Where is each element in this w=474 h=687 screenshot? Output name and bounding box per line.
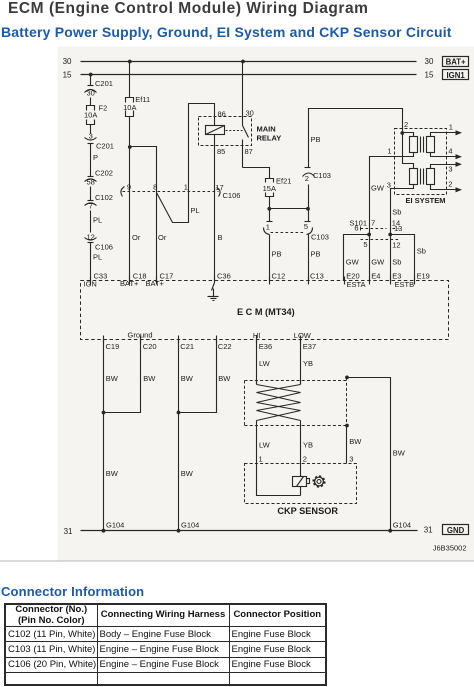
transformer secondary 1: [427, 137, 435, 153]
twisted pair wires: [257, 381, 301, 421]
svg-text:ESTB: ESTB: [395, 280, 415, 289]
wire BW C19 to G104: [104, 340, 119, 531]
svg-text:9: 9: [127, 183, 131, 192]
svg-text:YB: YB: [303, 440, 313, 449]
wire F2 to C201 pin 3: [90, 125, 92, 134]
svg-text:PB: PB: [272, 250, 282, 259]
svg-text:13: 13: [394, 224, 402, 233]
svg-text:15: 15: [425, 70, 434, 79]
svg-text:C12: C12: [272, 272, 286, 281]
svg-text:C36: C36: [217, 272, 231, 281]
wire ground bus 31: [64, 526, 434, 536]
svg-text:C22: C22: [218, 342, 232, 351]
pin C33 of ECM: [84, 272, 108, 289]
wire BW shield to G104: [347, 378, 406, 531]
svg-text:PB: PB: [311, 250, 321, 259]
wire PL from C106 pin 1 to pin 8: [157, 192, 200, 223]
wire C201 to fuse F2: [90, 98, 92, 106]
wire BW C20: [104, 340, 157, 413]
connector C103 pins 1 and 5: [264, 209, 329, 242]
svg-text:BW: BW: [393, 448, 406, 457]
wire Or C106 pin 8 to ECM C17: [157, 192, 167, 281]
svg-text:BW: BW: [181, 469, 194, 478]
svg-text:GW: GW: [371, 184, 385, 193]
pin E37 of ECM (LOW): [294, 331, 316, 351]
svg-text:C201: C201: [96, 142, 114, 151]
svg-text:8: 8: [153, 183, 157, 192]
svg-text:CKP SENSOR: CKP SENSOR: [277, 506, 338, 516]
svg-text:Sb: Sb: [417, 246, 426, 255]
wire PL to ECM C33: [91, 243, 103, 281]
CKP reluctor gear: [313, 476, 326, 488]
svg-text:E19: E19: [417, 272, 430, 281]
wire P: [91, 144, 99, 177]
svg-text:86: 86: [218, 110, 226, 119]
svg-text:IGN1: IGN1: [446, 71, 465, 80]
connector C202 pin 58: [85, 169, 113, 187]
svg-text:J6B35002: J6B35002: [433, 543, 467, 552]
ignition coil module EI SYSTEM: [395, 129, 447, 206]
svg-text:GND: GND: [447, 526, 465, 535]
svg-text:BW: BW: [218, 374, 231, 383]
svg-text:10A: 10A: [84, 111, 97, 120]
junction shield bottom: [345, 424, 349, 428]
wire PB to EI system via C103 pin 2: [303, 109, 403, 209]
svg-text:C106: C106: [223, 191, 241, 200]
node G104 left: [102, 521, 125, 533]
svg-text:E36: E36: [259, 342, 272, 351]
svg-text:C102: C102: [95, 193, 113, 202]
svg-text:10A: 10A: [123, 103, 136, 112]
wire bus 15 (ignition feed): [63, 70, 434, 79]
svg-text:PL: PL: [93, 253, 102, 262]
EI output 4: [431, 146, 463, 159]
svg-text:30: 30: [246, 109, 254, 118]
junction S101 GW: [367, 233, 371, 237]
pin C22 of ECM: [217, 336, 232, 352]
junction Ef11 branch: [128, 145, 132, 149]
svg-text:C202: C202: [95, 169, 113, 178]
junction PB right: [306, 207, 310, 211]
EI output 1: [431, 122, 463, 136]
connector C102 pin 7: [85, 193, 113, 211]
wire YB to CKP pin 2: [301, 421, 314, 464]
wire bus 30 (battery feed): [63, 57, 434, 66]
svg-text:PB: PB: [311, 135, 321, 144]
wire B C106 pin 17 to ECM C36: [215, 135, 223, 281]
wire Sb S101 pin 12 to ECM E3: [391, 235, 402, 281]
connector C201 pin 30: [85, 79, 113, 98]
svg-text:6: 6: [354, 224, 358, 233]
wire BW C21 to G104: [179, 340, 194, 531]
svg-text:BW: BW: [181, 374, 194, 383]
svg-text:G104: G104: [393, 521, 411, 530]
svg-text:RELAY: RELAY: [257, 133, 282, 142]
svg-text:31: 31: [64, 527, 73, 536]
svg-text:LW: LW: [259, 440, 271, 449]
svg-text:5: 5: [304, 222, 308, 231]
fuse Ef21 15A: [263, 176, 292, 196]
junction S101 Sb: [388, 233, 392, 237]
svg-text:G104: G104: [106, 521, 124, 530]
transformer core 2: [421, 169, 424, 185]
svg-text:LW: LW: [259, 359, 271, 368]
node EI pin 2: [400, 120, 408, 135]
svg-text:Ef21: Ef21: [276, 176, 291, 185]
svg-text:C20: C20: [143, 342, 157, 351]
wire Ef21 to junction: [269, 197, 271, 209]
wire YB from ECM E37: [301, 340, 314, 385]
svg-text:BW: BW: [106, 469, 119, 478]
svg-text:BAT+: BAT+: [120, 279, 139, 288]
svg-text:ESTA: ESTA: [347, 280, 366, 289]
svg-text:3: 3: [89, 131, 93, 140]
transformer core 1: [421, 137, 424, 153]
svg-text:C19: C19: [106, 342, 120, 351]
pin C17 of ECM: [146, 272, 174, 288]
drawing number J6B35002: [433, 543, 467, 552]
pin C36 of ECM with ground: [208, 272, 231, 301]
svg-text:15: 15: [63, 70, 72, 79]
svg-text:PL: PL: [191, 206, 200, 215]
svg-text:2: 2: [303, 454, 307, 463]
svg-text:1: 1: [266, 223, 270, 232]
transformer primary 2: [410, 169, 418, 185]
pin E19 of ECM: [415, 272, 430, 285]
svg-text:1: 1: [184, 183, 188, 192]
svg-text:MAIN: MAIN: [257, 124, 276, 133]
svg-text:PL: PL: [93, 215, 102, 224]
wire S101 pin 13 to ECM E19: [391, 235, 426, 281]
svg-text:BW: BW: [143, 374, 156, 383]
pin C19 of ECM (Ground): [104, 331, 153, 351]
svg-text:BW: BW: [349, 437, 362, 446]
wire EI pin 1: [370, 147, 414, 235]
svg-text:1: 1: [387, 147, 391, 156]
junction on bus 30 at main relay: [241, 60, 245, 64]
svg-text:Ef11: Ef11: [135, 95, 150, 104]
svg-text:Sb: Sb: [392, 257, 401, 266]
svg-text:7: 7: [89, 202, 93, 211]
wire junction link: [270, 208, 309, 210]
svg-text:2: 2: [404, 120, 408, 129]
pin C21 of ECM: [179, 336, 195, 352]
svg-text:C201: C201: [95, 79, 113, 88]
svg-text:1: 1: [259, 454, 263, 463]
svg-text:7: 7: [371, 218, 375, 227]
EI output 3: [431, 162, 463, 174]
node G104 middle: [177, 521, 200, 533]
svg-text:58: 58: [87, 178, 95, 187]
junction BW left: [102, 411, 106, 415]
wire from bus 30 to fuse Ef11: [129, 62, 131, 98]
wire color label Sb: [392, 207, 401, 216]
svg-text:15A: 15A: [263, 184, 276, 193]
connector C106 (engine fuse block): [121, 183, 241, 200]
wire BW shield to CKP pin 3: [347, 426, 363, 464]
svg-text:F2: F2: [99, 104, 108, 113]
svg-text:85: 85: [217, 147, 225, 156]
connector C106 pin 12: [85, 232, 113, 251]
svg-text:C103: C103: [313, 171, 331, 180]
wire color label GW: [371, 184, 385, 193]
wire EI pin 2 to primary 2: [403, 133, 414, 169]
svg-text:3: 3: [387, 180, 391, 189]
connector C201 pin 3: [85, 131, 114, 150]
node G104 right: [388, 521, 411, 533]
svg-text:B: B: [218, 233, 223, 242]
pin C12 of ECM: [270, 272, 286, 285]
wire BW C22: [179, 340, 232, 413]
wire LW from ECM E36: [257, 340, 271, 385]
svg-text:31: 31: [424, 526, 433, 535]
wire EI pin 2 to primary 1: [403, 133, 414, 137]
wire GW S101 pin 5 to ECM E4: [370, 235, 386, 281]
svg-text:C106: C106: [95, 243, 113, 252]
node IGN1: [443, 70, 469, 81]
node GND: [443, 525, 469, 536]
relay MAIN RELAY: [199, 62, 282, 168]
svg-text:12: 12: [392, 240, 400, 249]
pin E36 of ECM (HI): [253, 331, 272, 351]
wire C106 pin 1 to main relay pin 86: [189, 104, 215, 192]
svg-text:30: 30: [87, 88, 95, 97]
svg-text:30: 30: [63, 57, 72, 66]
wire from bus 15 to C201: [88, 75, 94, 86]
svg-text:E C M (MT34): E C M (MT34): [237, 307, 295, 317]
svg-text:LOW: LOW: [294, 331, 312, 340]
svg-text:C103: C103: [311, 233, 329, 242]
svg-text:1: 1: [449, 122, 453, 131]
fuse Ef11 10A: [123, 95, 150, 116]
junction on bus 15 at C201: [89, 73, 93, 77]
svg-text:P: P: [93, 153, 98, 162]
wire EI pin 3 Sb: [387, 180, 414, 234]
junction BW right: [177, 411, 181, 415]
transformer primary 1: [410, 137, 418, 153]
wire branch to C106 pin 8: [130, 147, 157, 192]
wire S101 pin 6 to ECM E20: [344, 235, 370, 281]
wire PB C103 pin 5 to ECM C13: [309, 235, 321, 281]
svg-text:E37: E37: [303, 342, 316, 351]
svg-text:BAT+: BAT+: [146, 279, 165, 288]
svg-text:EI SYSTEM: EI SYSTEM: [406, 196, 446, 205]
svg-text:GW: GW: [346, 257, 360, 266]
svg-text:YB: YB: [303, 359, 313, 368]
pin C20 of ECM: [141, 336, 157, 352]
transformer secondary 2: [427, 169, 435, 185]
svg-text:GW: GW: [371, 257, 385, 266]
svg-text:2: 2: [448, 179, 452, 188]
svg-text:BW: BW: [106, 374, 119, 383]
wire PL to C106: [91, 211, 103, 233]
wire Ef11 to junction: [129, 117, 131, 192]
wire Or C106 pin 9 to ECM C18: [130, 192, 141, 281]
svg-text:30: 30: [425, 57, 434, 66]
node BAT+: [443, 57, 469, 67]
svg-text:5: 5: [363, 240, 367, 249]
pin E3 of ECM: [391, 272, 415, 289]
wire PB C103 pin 1 to ECM C12: [270, 235, 282, 281]
junction on bus 30 at Ef11: [128, 60, 132, 64]
CKP pickup coil: [257, 464, 310, 496]
junction shield top: [345, 376, 349, 380]
pin E4 of ECM: [370, 272, 381, 285]
svg-text:Sb: Sb: [392, 207, 401, 216]
splice S101: [350, 218, 403, 249]
pin C13 of ECM: [309, 272, 324, 285]
svg-text:3: 3: [349, 454, 353, 463]
svg-text:Or: Or: [132, 233, 141, 242]
junction PB left: [267, 207, 271, 211]
svg-text:BAT+: BAT+: [446, 58, 466, 67]
wire relay 87 to fuse Ef21: [243, 168, 270, 179]
wire C202 to C102: [90, 187, 92, 201]
pin C18 of ECM: [120, 272, 147, 288]
sensor CKP SENSOR box: [245, 464, 357, 517]
svg-text:G104: G104: [181, 521, 199, 530]
svg-text:C13: C13: [310, 272, 324, 281]
svg-text:4: 4: [448, 146, 452, 155]
shield box (twisted pair): [245, 378, 347, 426]
svg-text:87: 87: [245, 147, 253, 156]
svg-text:Or: Or: [158, 233, 167, 242]
pin E20 of ECM: [345, 272, 366, 289]
fuse F2 10A: [84, 104, 107, 125]
EI output 2: [431, 179, 463, 192]
wire LW to CKP pin 1: [257, 421, 271, 464]
ECM module box E C M (MT34): [81, 281, 449, 340]
svg-text:2: 2: [305, 174, 309, 183]
svg-text:3: 3: [448, 165, 452, 174]
svg-text:E4: E4: [371, 272, 380, 281]
svg-text:C21: C21: [180, 342, 194, 351]
